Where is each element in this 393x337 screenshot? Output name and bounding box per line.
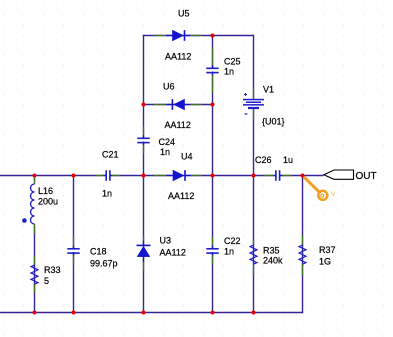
svg-text:R37: R37 — [319, 245, 336, 255]
resistor R33 — [31, 256, 38, 293]
port OUT — [324, 170, 354, 179]
wire top net y=35.5 — [143, 35, 254, 37]
svg-text:AA112: AA112 — [165, 120, 191, 130]
svg-text:240k: 240k — [263, 256, 283, 266]
svg-text:1n: 1n — [224, 67, 234, 77]
resistor R35 — [250, 240, 257, 276]
svg-text:1u: 1u — [283, 155, 293, 165]
svg-text:V1: V1 — [263, 85, 274, 95]
diode U6 — [154, 99, 202, 110]
capacitor C25 — [206, 47, 220, 93]
diode U4 — [154, 170, 202, 181]
svg-text:{U01}: {U01} — [262, 117, 285, 127]
svg-text:99.67p: 99.67p — [90, 259, 118, 269]
svg-text:200u: 200u — [38, 197, 58, 207]
wire L16/R33 branch x=34.5 — [34, 176, 36, 313]
svg-text:U4: U4 — [181, 152, 193, 162]
diode U3 — [137, 236, 151, 271]
svg-text:U5: U5 — [178, 9, 190, 19]
svg-text:5: 5 — [44, 276, 49, 286]
svg-text:C21: C21 — [102, 150, 119, 160]
svg-text:AA112: AA112 — [168, 191, 194, 201]
svg-text:C25: C25 — [224, 57, 241, 67]
svg-text:U3: U3 — [160, 236, 172, 246]
capacitor C26 — [264, 169, 292, 182]
capacitor C24 — [137, 127, 151, 153]
voltage marker probe — [304, 177, 336, 200]
svg-text:AA112: AA112 — [165, 52, 191, 62]
wire bottom net y=312.5 — [0, 312, 303, 314]
wire V1/R35 branch x=253.5 — [253, 35, 255, 313]
svg-text:OUT: OUT — [356, 171, 377, 182]
svg-text:U6: U6 — [163, 82, 175, 92]
capacitor C21 — [96, 169, 120, 182]
svg-text:V: V — [331, 191, 336, 198]
battery V1 — [241, 88, 267, 120]
wire left rail x=143.5 — [143, 35, 145, 313]
wire C18 branch x=73.5 — [73, 176, 75, 313]
wire main horizontal net y=175.5 — [0, 175, 324, 177]
svg-text:1n: 1n — [224, 247, 234, 257]
svg-text:C18: C18 — [90, 247, 107, 257]
svg-text:R35: R35 — [263, 246, 280, 256]
svg-text:AA112: AA112 — [160, 248, 186, 258]
svg-text:1G: 1G — [319, 257, 331, 267]
wire right rail x=212.5 — [212, 35, 214, 313]
svg-text:C26: C26 — [255, 155, 272, 165]
svg-text:1n: 1n — [160, 147, 170, 157]
wire R37 branch x=302.5 — [302, 176, 304, 314]
svg-text:C24: C24 — [159, 137, 176, 147]
svg-text:R33: R33 — [44, 265, 61, 275]
resistor R37 — [299, 235, 306, 275]
diode U5 — [154, 30, 202, 41]
inductor L16 — [22, 176, 40, 234]
svg-text:C22: C22 — [224, 236, 241, 246]
capacitor C18 — [67, 237, 81, 266]
svg-text:L16: L16 — [38, 186, 53, 196]
capacitor C22 — [206, 237, 220, 265]
wire U6 row y=104.5 — [143, 104, 213, 106]
svg-text:1n: 1n — [102, 189, 112, 199]
